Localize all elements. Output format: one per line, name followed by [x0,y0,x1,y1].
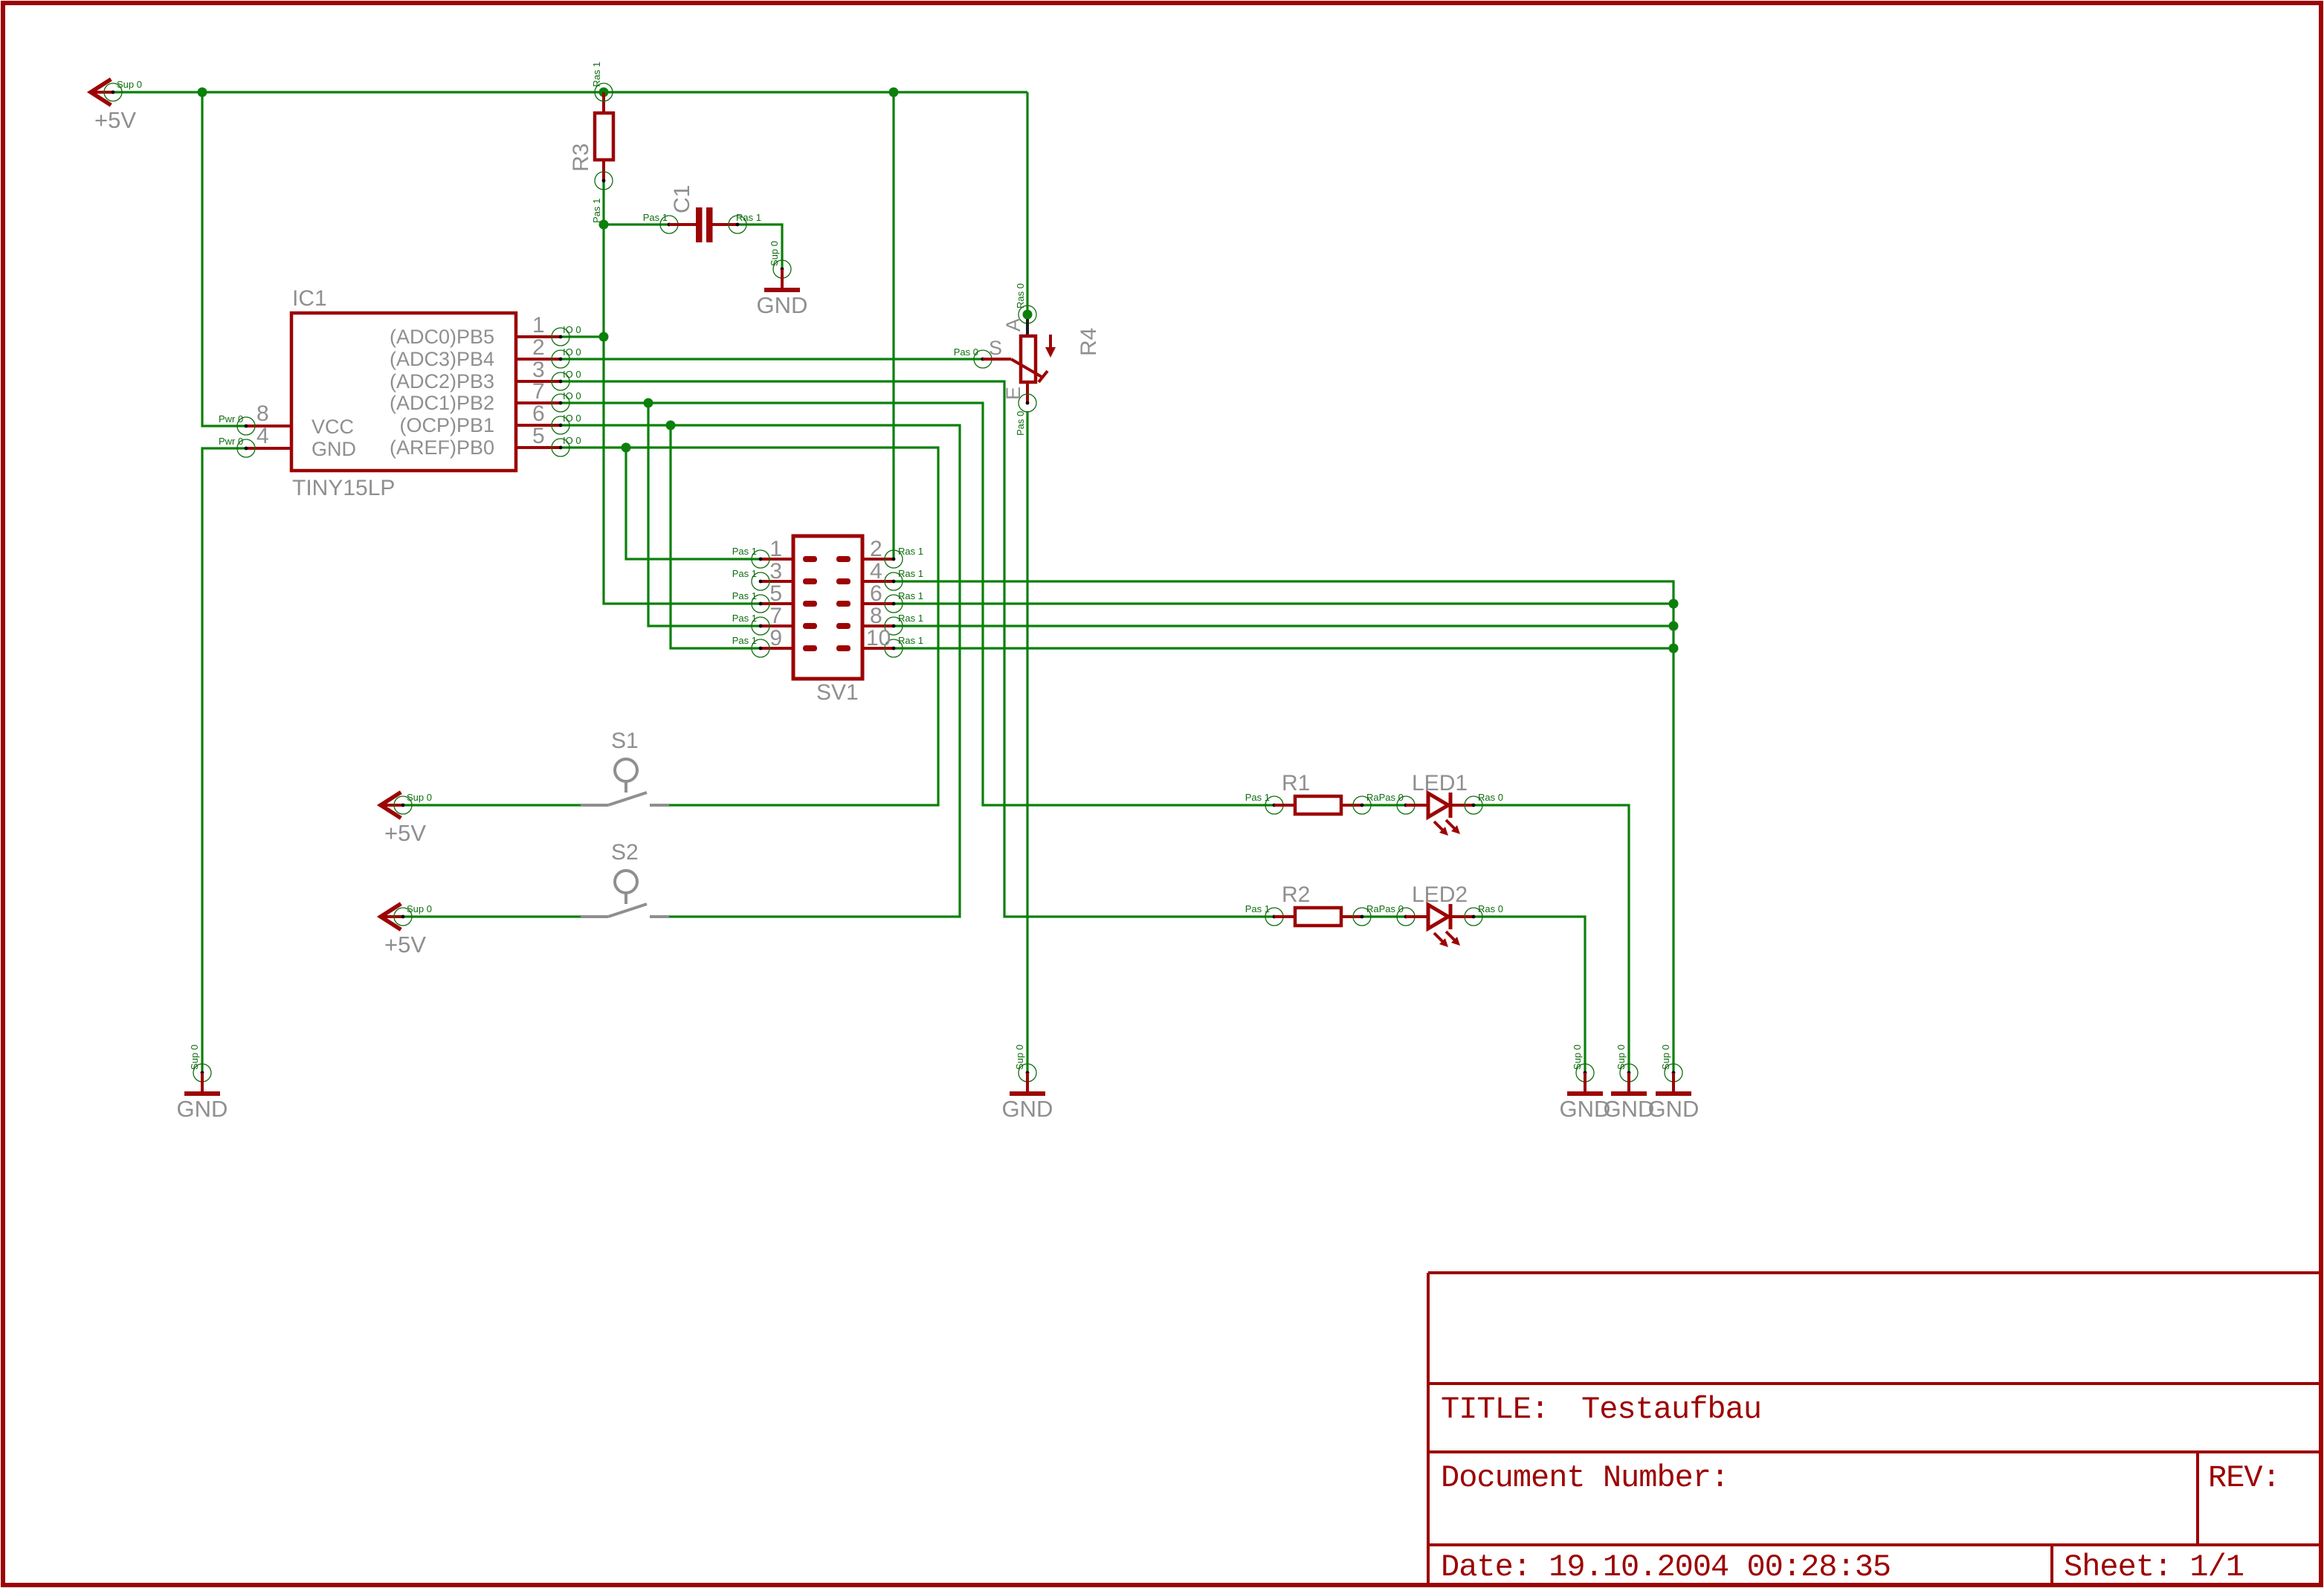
SV1 pin 4 [836,559,923,590]
SV1 pin 8 [836,604,923,635]
wire R2 to LED2 [1362,915,1406,917]
svg-text:Pas 1: Pas 1 [732,590,757,601]
SV1 pin 3 [732,559,817,590]
svg-text:Pas 1: Pas 1 [732,635,757,646]
resistor R2 [1245,882,1404,926]
svg-text:(ADC0)PB5: (ADC0)PB5 [390,326,494,348]
SV1 pin 5 [732,581,817,613]
svg-text:(ADC3)PB4: (ADC3)PB4 [390,348,494,370]
wire LED1 to GND [1474,805,1629,1073]
svg-text:10: 10 [866,626,891,651]
svg-text:5: 5 [532,424,545,448]
svg-text:IO 0: IO 0 [563,346,581,358]
wire S1 +5V to switch [403,804,581,806]
ground symbol bottom right 2 [1604,1045,1655,1122]
ground symbol bottom right 1 [1560,1045,1611,1122]
switch S1 [581,729,669,805]
ground symbol bottom right 3 [1648,1045,1700,1122]
wire IC pin7 to R1 [561,403,1274,805]
svg-text:Pas 1: Pas 1 [1245,903,1270,914]
IC pin 6 [516,401,581,434]
wire SV1 pin8 [894,624,1673,627]
IC pin 4 GND [219,424,291,457]
svg-text:9: 9 [769,626,782,651]
svg-text:(ADC2)PB3: (ADC2)PB3 [390,370,494,393]
IC pin 5 [516,424,581,456]
svg-text:Ras 1: Ras 1 [736,212,761,223]
trimmer resistor R4 [954,283,1101,436]
svg-text:IO 0: IO 0 [563,413,581,424]
svg-text:1: 1 [769,537,782,561]
svg-text:Pas 1: Pas 1 [732,546,757,557]
svg-text:5: 5 [769,581,782,606]
SV1 pin 1 [732,537,817,568]
svg-text:2: 2 [870,537,882,561]
svg-text:Sup 0: Sup 0 [189,1045,200,1070]
svg-text:REV:: REV: [2208,1460,2280,1496]
svg-text:IO 0: IO 0 [563,369,581,380]
svg-text:Pwr 0: Pwr 0 [219,413,243,425]
wire IC pin7 branch to SV1 pin7 [648,403,761,626]
svg-text:IO 0: IO 0 [563,324,581,335]
IC pin 7 [516,379,581,412]
svg-text:Ras 1: Ras 1 [898,568,923,579]
+5V supply arrow top left [91,79,142,133]
wire IC pin3 to R2 [561,381,1274,917]
svg-text:Pas 1: Pas 1 [643,212,668,223]
IC pin 3 [516,358,581,390]
svg-text:Ras 1: Ras 1 [898,635,923,646]
svg-text:(ADC1)PB2: (ADC1)PB2 [390,392,494,414]
svg-text:2: 2 [532,335,545,360]
svg-text:GND: GND [757,292,808,318]
wire IC GND to GND symbol [202,448,246,1073]
ground symbol at C1 [757,241,808,318]
svg-text:Pas 0: Pas 0 [1015,411,1026,436]
wire S2 +5V to switch [403,915,581,917]
IC pin 8 VCC [219,401,291,435]
svg-text:A: A [1002,318,1024,332]
ground symbol bottom left [177,1045,228,1122]
switch S2 [581,840,669,917]
svg-text:GND: GND [1604,1096,1655,1122]
svg-text:(AREF)PB0: (AREF)PB0 [390,436,494,459]
svg-text:Testaufbau: Testaufbau [1581,1392,1761,1427]
wire LED2 to GND [1474,917,1585,1073]
svg-text:Sup 0: Sup 0 [1660,1045,1671,1070]
SV1 pin 9 [732,626,817,657]
wire SV1 pin4 to GND right [894,581,1673,1073]
svg-text:Sup 0: Sup 0 [407,792,432,803]
svg-text:R3: R3 [569,143,593,172]
wire R4 E to GND [1026,411,1028,1073]
IC pin 1 [516,313,581,346]
svg-text:Sup 0: Sup 0 [769,241,780,266]
resistor R3 [569,62,613,223]
svg-text:Sheet: 1/1: Sheet: 1/1 [2064,1549,2244,1585]
svg-text:Pas 1: Pas 1 [1245,792,1270,803]
svg-text:+5V: +5V [384,820,426,846]
IC pin 2 [516,335,581,368]
capacitor C1 [643,185,761,242]
resistor R1 [1245,771,1404,814]
wire IC pin2 to R4 S [561,358,983,360]
wire junction to C1 left [604,223,669,225]
svg-text:Pwr 0: Pwr 0 [219,436,243,447]
wire SV1 pin10 [894,647,1673,649]
svg-text:Pas 0: Pas 0 [954,346,978,358]
svg-text:7: 7 [769,604,782,628]
svg-text:Sup 0: Sup 0 [1014,1045,1025,1070]
svg-text:GND: GND [1002,1096,1053,1122]
svg-text:8: 8 [870,604,882,628]
wire IC pin5 branch to SV1 pin1 [626,448,761,559]
svg-text:R2: R2 [1282,882,1310,907]
svg-text:Pas 1: Pas 1 [732,568,757,579]
svg-text:8: 8 [256,401,269,426]
svg-text:SV1: SV1 [816,680,859,705]
junction dots [198,88,1679,653]
svg-text:+5V: +5V [384,932,426,958]
svg-text:LED2: LED2 [1412,882,1468,907]
svg-text:Pas 1: Pas 1 [732,613,757,624]
svg-text:6: 6 [870,581,882,606]
wire IC pin5 to S1 [561,448,938,805]
svg-text:(OCP)PB1: (OCP)PB1 [399,414,494,436]
svg-text:LED1: LED1 [1412,771,1468,795]
SV1 pin 6 [836,581,923,613]
SV1 pin 7 [732,604,817,635]
+5V supply arrow at S1 [381,792,432,846]
wire IC pin1 [561,335,604,338]
title block outline [1428,1273,2319,1583]
svg-text:Pas 1: Pas 1 [591,198,602,223]
connector SV1 [793,536,862,705]
svg-text:6: 6 [532,401,545,426]
svg-text:Ras 1: Ras 1 [898,590,923,601]
wire IC pin6 branch to SV1 pin9 [671,425,761,648]
ground symbol bottom middle [1002,1045,1053,1122]
svg-text:IO 0: IO 0 [563,435,581,446]
svg-text:S: S [989,337,1002,359]
svg-text:GND: GND [1648,1096,1700,1122]
svg-text:Ras 1: Ras 1 [898,613,923,624]
LED2 [1397,882,1503,947]
svg-text:Ras 0: Ras 0 [1015,283,1026,309]
svg-text:Date: 19.10.2004 00:28:35: Date: 19.10.2004 00:28:35 [1441,1549,1891,1585]
svg-text:C1: C1 [670,185,694,213]
wire R1 to LED1 [1362,804,1406,806]
wire IC pin6 to S2 [561,425,960,917]
svg-text:R1: R1 [1282,771,1310,795]
svg-text:4: 4 [870,559,882,584]
wire SV1 pin6 [894,602,1673,604]
svg-text:TINY15LP: TINY15LP [292,476,395,500]
svg-text:Document Number:: Document Number: [1441,1460,1729,1496]
svg-text:S2: S2 [611,840,639,865]
wire R3 bottom to SV1 pin5 [604,181,761,604]
wire rail to IC VCC [202,92,246,426]
svg-text:7: 7 [532,379,545,404]
svg-text:Ras 1: Ras 1 [591,62,602,87]
svg-text:IC1: IC1 [292,286,327,311]
svg-text:Ras 0: Ras 0 [1478,903,1503,914]
svg-text:Sup 0: Sup 0 [1615,1045,1627,1070]
svg-text:4: 4 [256,424,269,448]
svg-text:Ras 1: Ras 1 [898,546,923,557]
SV1 pin 2 [836,537,923,568]
wire rail to R4 A [1026,92,1028,314]
svg-text:Sup 0: Sup 0 [407,903,432,914]
svg-text:1: 1 [532,313,545,338]
svg-text:VCC: VCC [312,416,354,438]
wire C1 right to GND [737,225,782,269]
svg-text:TITLE:: TITLE: [1441,1392,1549,1427]
LED1 [1397,771,1503,836]
SV1 pin 10 [836,626,923,657]
svg-text:IO 0: IO 0 [563,390,581,401]
svg-text:GND: GND [312,438,356,460]
wire rail to SV1 pin2 [892,92,894,559]
svg-text:Sup 0: Sup 0 [117,79,142,90]
+5V supply arrow at S2 [381,903,432,958]
svg-text:E: E [1002,387,1024,400]
svg-text:S1: S1 [611,729,639,753]
wire +5V rail [113,91,1027,93]
svg-text:Sup 0: Sup 0 [1572,1045,1583,1070]
svg-text:GND: GND [177,1096,228,1122]
svg-text:Ras 0: Ras 0 [1478,792,1503,803]
svg-text:R4: R4 [1077,328,1101,356]
svg-text:3: 3 [769,559,782,584]
svg-text:+5V: +5V [94,107,136,133]
IC U1 TINY15LP body [291,286,516,500]
